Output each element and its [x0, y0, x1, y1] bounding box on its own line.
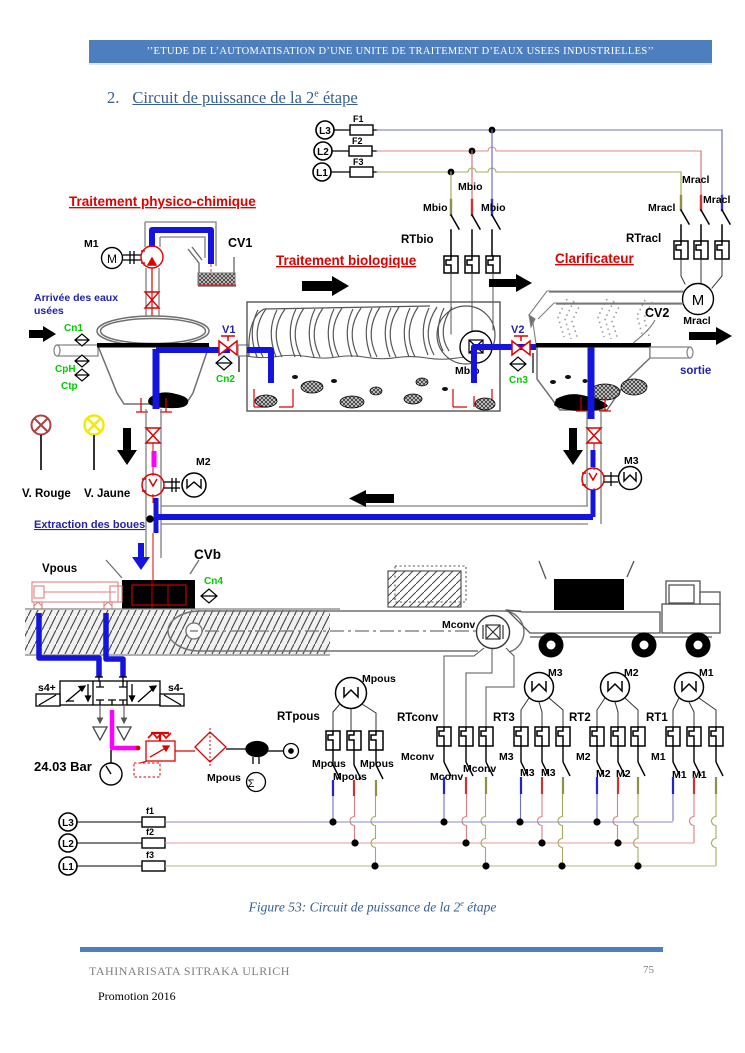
basin bio tank [247, 302, 500, 411]
hose blue A [39, 613, 99, 677]
contactor contact M2 pole 1 [597, 746, 604, 776]
arrow down blue into CVb [132, 543, 150, 570]
valve dosing (vertical) [145, 292, 160, 308]
node on L3 at x=492 [489, 127, 496, 134]
svg-text:F1: F1 [353, 114, 364, 124]
SECTION:MID [22, 409, 642, 580]
arrow flow physico to bio [302, 276, 349, 296]
contactor contact Mbio pole 2 [472, 215, 480, 256]
svg-text:Mpous: Mpous [360, 758, 394, 770]
SECTION:PHYSICO [29, 194, 256, 412]
valve boues left [146, 428, 160, 443]
svg-text:RT2: RT2 [569, 712, 591, 724]
sensor Ctp [75, 369, 89, 381]
contactor contact Mbio pole 1 [451, 215, 459, 256]
wire phase L3 horizontal [377, 129, 722, 131]
coupling M3 [604, 472, 618, 486]
tank physico body [98, 346, 209, 404]
arrow down right [563, 428, 583, 465]
wire Mconv drops to bus [443, 777, 445, 794]
svg-text:M1: M1 [699, 667, 714, 679]
terminal L3 (bottom) [59, 813, 77, 831]
contactor contact Mpous pole 2 [354, 750, 361, 779]
svg-text:Σ: Σ [248, 778, 255, 790]
svg-text:M1: M1 [84, 238, 99, 250]
motor M1 starter [675, 667, 714, 702]
arrow sortie [689, 327, 732, 345]
sensor Cn3 [510, 353, 533, 373]
fuse F2 [332, 136, 377, 156]
svg-text:L2: L2 [62, 839, 74, 850]
vessel CV1 [188, 247, 236, 286]
svg-text:CVb: CVb [194, 547, 221, 562]
node bus L2 taps [351, 839, 621, 846]
svg-text:Ctp: Ctp [61, 381, 78, 392]
contactor contact M2 pole 2 [618, 746, 625, 776]
motor M3 (fan symbol) [619, 455, 642, 490]
sludge box on belt (hatched) [388, 571, 461, 607]
valve 5/2 s4 [36, 677, 184, 706]
wire drop blue to Mbio contact 3 [491, 130, 493, 200]
thermal relay RT2 [590, 727, 645, 746]
svg-text:V1: V1 [222, 324, 235, 336]
truck container [554, 579, 624, 610]
truck funnel posts [539, 561, 634, 579]
contactor contact Mpous pole 1 [333, 750, 340, 779]
thermal relay RT1 [666, 727, 723, 746]
tank waterline [97, 343, 209, 348]
SECTION:CONV [25, 543, 720, 658]
node bus L3 taps [329, 818, 600, 825]
wire Mpous motor to relay [333, 704, 376, 731]
funnel CVb [106, 560, 199, 578]
svg-text:Vpous: Vpous [42, 563, 77, 575]
svg-text:Mpous: Mpous [362, 673, 396, 685]
SECTION:TOP [313, 114, 731, 338]
wire drop olive to Mbio contact 1 [450, 172, 452, 200]
motor Mbio [460, 331, 492, 363]
contactor contact M3 pole 1 [521, 746, 528, 776]
svg-text:F2: F2 [352, 136, 363, 146]
pipe gray pump to tank [146, 268, 159, 330]
magenta segment left [152, 451, 157, 467]
water surface wavy [247, 355, 480, 359]
svg-text:M2: M2 [576, 751, 591, 763]
contactor contact Mpous pole 3 [376, 750, 383, 779]
header bar [89, 40, 712, 65]
SECTION:PNEU [34, 613, 299, 792]
inlet pipe cylinder [54, 345, 98, 356]
motor M2 (fan symbol) [182, 456, 211, 497]
sludge blobs clarifier [554, 394, 608, 411]
svg-text:f3: f3 [146, 850, 154, 860]
contactor contact Mconv pole 3 [486, 746, 493, 776]
SECTION:BIO [247, 253, 536, 411]
svg-text:Mpous: Mpous [312, 758, 346, 770]
fuse f2 [77, 827, 165, 848]
svg-text:V. Jaune: V. Jaune [84, 488, 130, 500]
clarifier roof outline [529, 291, 684, 344]
svg-text:M3: M3 [624, 455, 639, 467]
svg-text:L3: L3 [319, 126, 331, 137]
pipe outline CV1 feed [145, 222, 216, 266]
svg-text:Mconv: Mconv [442, 619, 475, 631]
filter (red diamond) [175, 728, 226, 768]
arrow flow return (left) [349, 490, 394, 507]
node extraction junction [146, 515, 154, 523]
pipe blue bio inlet [247, 350, 271, 383]
svg-text:Cn4: Cn4 [204, 576, 223, 587]
wire M1 motor to relay [673, 698, 716, 727]
contactor contact Mracl pole 2 [701, 210, 709, 241]
motor Mconv [477, 616, 510, 649]
svg-text:24.03 Bar: 24.03 Bar [34, 759, 92, 774]
red sparger bio left [254, 389, 293, 407]
motor Mpous [336, 673, 396, 709]
svg-text:Cn1: Cn1 [64, 323, 83, 334]
truck cab [662, 581, 720, 633]
exhaust port lines [98, 706, 127, 723]
motor Mracl [683, 284, 714, 328]
sparger red bracket in tank [140, 327, 164, 340]
svg-text:Cn2: Cn2 [216, 374, 235, 385]
svg-text:M1: M1 [672, 769, 687, 781]
sludge blob physico [148, 392, 188, 408]
svg-text:RTconv: RTconv [397, 712, 439, 724]
sensor Cn1 [75, 334, 89, 346]
contactor contact M1 pole 1 [673, 746, 680, 776]
svg-text:M3: M3 [541, 767, 556, 779]
SECTION:BUS [59, 806, 716, 875]
svg-text:Traitement biologique: Traitement biologique [276, 253, 417, 268]
pump P1 (red) [141, 246, 163, 268]
pipe blue tank outlet [153, 349, 160, 409]
svg-text:CV1: CV1 [228, 236, 252, 250]
node on L2 at x=472 [469, 148, 476, 155]
SECTION:START [277, 648, 723, 866]
wire drop olive to Mracl contact 1 [680, 172, 682, 205]
scraper drive lines [549, 292, 683, 304]
indicator lamp V.Rouge [32, 416, 51, 435]
pipe gray left downcomer [146, 409, 161, 558]
terminal L1 (top) [313, 163, 331, 181]
pipe gray right downcomer [587, 411, 601, 524]
svg-text:Mpous: Mpous [333, 771, 367, 783]
hose blue B [106, 613, 123, 677]
pipe blue M2 down [154, 498, 159, 533]
pipe blue M3 down to horizontal [591, 490, 596, 517]
thermal relay RTconv [437, 727, 493, 746]
arrow down left [117, 428, 137, 465]
footer page number [643, 964, 654, 976]
wire drop blue to Mracl contact 3 [721, 130, 723, 205]
contactor contact Mbio pole 3 [492, 215, 500, 256]
wire bus L1 [165, 865, 716, 867]
svg-text:Mpous: Mpous [207, 772, 241, 784]
wire Mpous drops to bus [332, 780, 334, 796]
red line right downcomer [593, 443, 595, 492]
footer rule [80, 947, 663, 952]
sensor CpH [75, 355, 89, 367]
footer author [89, 964, 290, 979]
red sparger bio right [453, 389, 492, 407]
exhaust silencer triangles [93, 727, 131, 740]
svg-text:L1: L1 [62, 862, 74, 873]
conveyor belt [168, 611, 524, 652]
svg-text:M3: M3 [499, 751, 514, 763]
svg-text:L2: L2 [317, 147, 329, 158]
svg-text:M3: M3 [548, 667, 563, 679]
fuse f1 [77, 806, 165, 827]
svg-text:Mbio: Mbio [423, 202, 448, 214]
lamella dotted chevrons [558, 299, 652, 340]
fuse f3 [77, 850, 165, 871]
clarifier waterline [536, 343, 651, 348]
truck bed [507, 610, 712, 637]
hopper CVb (black box) [122, 580, 195, 609]
thermal relay RT3 [514, 727, 570, 746]
coupling M1 to pump [123, 251, 141, 264]
truck wheel 3 [686, 633, 711, 658]
motor M1 [84, 238, 123, 269]
belt centerline [205, 630, 480, 632]
svg-text:L1: L1 [316, 168, 328, 179]
roller pulley [186, 623, 202, 639]
wire M1 drops to bus [672, 777, 674, 794]
svg-text:CV2: CV2 [645, 306, 669, 320]
svg-text:Clarificateur: Clarificateur [555, 251, 635, 266]
svg-text:Extraction des boues: Extraction des boues [34, 519, 145, 531]
svg-text:Mconv: Mconv [401, 751, 434, 763]
svg-text:Arrivée des eaux: Arrivée des eaux [34, 292, 118, 304]
svg-text:Mconv: Mconv [430, 771, 463, 783]
svg-text:V. Rouge: V. Rouge [22, 488, 71, 500]
thermal relay RTpous [326, 731, 383, 750]
footer promotion [98, 989, 176, 1004]
SECTION:CLAR [529, 251, 732, 419]
terminal L1 (bottom) [59, 857, 77, 875]
svg-text:Cn3: Cn3 [509, 375, 528, 386]
contactor contact M3 pole 2 [542, 746, 549, 776]
pipe red dosing line [149, 268, 155, 336]
svg-text:F3: F3 [353, 157, 364, 167]
arrow inlet [29, 326, 56, 342]
fuse F1 [334, 114, 377, 135]
terminal L2 (bottom) [59, 834, 77, 852]
coupling M2 [164, 478, 180, 492]
arrow flow bio to clarifier [489, 274, 532, 292]
pressure gauge 24.03 Bar [100, 750, 122, 785]
svg-text:V2: V2 [511, 324, 524, 336]
svg-text:Mracl: Mracl [648, 202, 676, 214]
wire drop red to Mbio contact 2 [471, 151, 473, 200]
svg-text:M: M [107, 252, 117, 266]
svg-text:Mbio: Mbio [458, 181, 483, 193]
valve V2 [512, 336, 530, 355]
pipe blue clarifier outlet [588, 347, 595, 419]
ground hatch [25, 610, 330, 654]
pipe blue to CV1 [152, 230, 211, 264]
valve V1 [219, 336, 237, 355]
tank physico rim [97, 316, 209, 346]
svg-text:M2: M2 [196, 456, 211, 468]
wire bus L3 [165, 821, 673, 823]
svg-text:usées: usées [34, 305, 64, 317]
figure caption [0, 899, 745, 916]
contactor contact M3 pole 3 [563, 746, 570, 776]
svg-text:s4+: s4+ [38, 682, 56, 694]
svg-text:s4-: s4- [168, 682, 184, 694]
terminal L3 (top) [316, 121, 334, 139]
thermal relay RTracl [674, 241, 729, 259]
svg-text:M1: M1 [651, 751, 666, 763]
motor M3 starter [525, 667, 563, 702]
contactor contact Mracl pole 3 [722, 210, 730, 241]
wire drop red to Mracl contact 2 [700, 151, 702, 205]
drum end cap [437, 306, 495, 364]
node on L1 at x=451 [448, 169, 455, 176]
wire Mconv relay risers [444, 648, 514, 727]
wire phase L1 horizontal with hops [377, 168, 681, 172]
indicator lamp V.Jaune [85, 416, 104, 435]
hose magenta supply [112, 710, 137, 748]
wire M2 drops to bus [596, 777, 598, 794]
compressor Mpous [226, 742, 299, 792]
pipe cylinder V1 to bio [238, 345, 249, 356]
pump M3 (red) [582, 468, 604, 490]
node bus L1 taps [371, 862, 641, 869]
fuse F3 [331, 157, 377, 177]
pump M2 (red) [142, 474, 164, 496]
red bracket clarifier bottom [576, 397, 611, 411]
blue segment right [591, 450, 596, 467]
contactor contact M1 pole 2 [694, 746, 701, 776]
svg-text:Mracl: Mracl [703, 194, 731, 206]
sensor Cn2 [216, 352, 239, 372]
wire RTbio to motor Mbio [451, 273, 493, 338]
svg-text:Traitement physico-chimique: Traitement physico-chimique [69, 194, 256, 209]
svg-text:sortie: sortie [680, 365, 711, 377]
svg-text:Mconv: Mconv [463, 763, 496, 775]
svg-text:RTpous: RTpous [277, 711, 320, 723]
clarifier tank body [537, 346, 650, 410]
valve boues right [587, 428, 601, 443]
pipe gray horizontal boues [161, 506, 588, 524]
contactor contact M2 pole 3 [638, 746, 645, 776]
actuator Vpous (pneumatic cylinder) [32, 582, 122, 609]
wire M3 motor to relay [521, 698, 563, 727]
wire RTracl to motor Mracl [681, 259, 722, 288]
svg-text:RTracl: RTracl [626, 233, 661, 245]
svg-text:Mracl: Mracl [683, 315, 711, 327]
regulator (red) [134, 733, 175, 777]
svg-text:L3: L3 [62, 818, 74, 829]
wire M2 motor to relay [597, 698, 638, 727]
pipe blue bio outlet [474, 347, 536, 383]
terminal L2 (top) [314, 142, 332, 160]
truck wheel 1 [539, 633, 564, 658]
outlet pipe cylinder [650, 347, 693, 358]
svg-text:RTbio: RTbio [401, 234, 434, 246]
wire bus L2 [165, 842, 694, 844]
wire phase L2 horizontal with hop at x=492 [377, 147, 701, 151]
contactor contact M1 pole 3 [716, 746, 723, 776]
contactor contact Mconv pole 1 [444, 746, 451, 776]
contactor contact Mconv pole 2 [466, 746, 473, 776]
svg-text:M: M [692, 292, 705, 309]
sludge blobs bio [255, 378, 495, 410]
aeration drum ribs [249, 306, 452, 357]
section title [107, 88, 358, 108]
svg-text:Mbio: Mbio [481, 202, 506, 214]
sensor Cn4 [201, 589, 217, 603]
red bracket under tank [136, 398, 172, 412]
svg-text:CpH: CpH [55, 364, 76, 375]
truck wheel 2 [632, 633, 657, 658]
svg-text:M2: M2 [596, 768, 611, 780]
svg-text:f1: f1 [146, 806, 154, 816]
wire M3 drops to bus [520, 777, 522, 794]
motor M2 starter [601, 667, 639, 702]
thermal relay RTbio [444, 256, 500, 273]
svg-text:RT1: RT1 [646, 712, 668, 724]
red line left downcomer [152, 443, 154, 580]
svg-text:M2: M2 [624, 667, 639, 679]
svg-text:f2: f2 [146, 827, 154, 837]
svg-text:Mracl: Mracl [682, 174, 710, 186]
pipe blue horizontal boues [156, 514, 593, 520]
contactor contact Mracl pole 1 [681, 210, 689, 241]
svg-text:RT3: RT3 [493, 712, 515, 724]
svg-text:M3: M3 [520, 767, 535, 779]
